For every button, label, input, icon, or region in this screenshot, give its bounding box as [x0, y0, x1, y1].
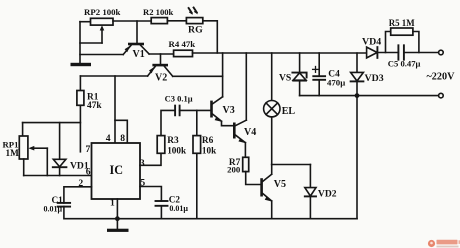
svg-text:RP2 100k: RP2 100k: [84, 7, 121, 17]
svg-text:C3 0.1μ: C3 0.1μ: [165, 94, 193, 104]
svg-text:V1: V1: [133, 49, 145, 60]
svg-text:VD2: VD2: [318, 189, 337, 200]
wire V2 emitter row to R1 column: [80, 75, 147, 77]
svg-text:0.01μ: 0.01μ: [44, 205, 63, 214]
wire main rail R4 to VD4: [193, 52, 367, 54]
svg-text:C1: C1: [52, 195, 64, 205]
wire lower terminal row: [300, 95, 439, 97]
wire C3 to V3 base: [180, 109, 211, 111]
svg-text:1: 1: [110, 198, 115, 209]
resistor R5 1M parallel: [386, 28, 419, 53]
svg-text:R4 47k: R4 47k: [169, 39, 196, 49]
label C1 0.01u: [44, 195, 64, 214]
wire pin6 row: [24, 175, 92, 177]
wire left column vertical: [79, 22, 81, 63]
wire R3 top to C3: [161, 110, 175, 135]
wire C1 bottom to rail: [64, 207, 357, 219]
svg-text:C2: C2: [169, 195, 181, 205]
wire RP1 VD1 horizontal: [23, 122, 81, 124]
terminal upper: [439, 50, 444, 55]
svg-text:C5 0.47μ: C5 0.47μ: [388, 59, 421, 69]
wire pins 4 8 drop: [115, 76, 127, 143]
wire V5 emitter to rail: [271, 201, 273, 219]
wire R7 bottom to V5 base: [246, 172, 261, 185]
wire R1 branch vertical upper: [79, 76, 81, 91]
svg-text:V4: V4: [244, 127, 256, 138]
capacitor C3 0.1u: [175, 106, 180, 116]
transistor V3: [210, 97, 222, 122]
wire V2 base: [160, 54, 162, 64]
ground bottom: [107, 219, 129, 232]
terminal lower: [439, 93, 444, 98]
node VD3 lower junction: [355, 93, 360, 98]
ground top-left: [71, 63, 92, 66]
wire EL bottom junction row: [272, 164, 311, 166]
label RP1 1M: [3, 140, 20, 159]
capacitor C2 0.01u: [156, 201, 168, 219]
zener diode VS: [292, 53, 306, 96]
svg-text:IC: IC: [110, 163, 124, 177]
label C4 470u: [327, 70, 345, 88]
wire V2 collector row to V3 collector column: [173, 75, 223, 77]
svg-text:1M: 1M: [6, 148, 20, 158]
svg-text:R2 100k: R2 100k: [143, 7, 174, 17]
capacitor C4 470u electrolytic: [313, 53, 326, 96]
wire RP1 bottom lead: [23, 159, 25, 176]
svg-text:470μ: 470μ: [327, 77, 345, 87]
wire pin2 row: [64, 187, 92, 203]
wire V4 emitter to R7: [244, 143, 246, 158]
potentiometer RP2 100k: [80, 18, 113, 43]
svg-text:V2: V2: [155, 73, 167, 84]
svg-text:3: 3: [140, 158, 145, 169]
wire R6 top: [196, 110, 198, 135]
svg-text:V5: V5: [274, 179, 286, 190]
transistor V2: [148, 64, 173, 77]
capacitor C1 0.01u: [58, 203, 70, 207]
resistor R2 100k: [151, 18, 167, 24]
capacitor C5 0.47u: [398, 45, 438, 59]
node pin1 rail junction: [115, 216, 120, 221]
wire V3 collector up to rail: [222, 53, 224, 97]
svg-text:VD3: VD3: [365, 73, 384, 84]
svg-text:VD4: VD4: [362, 36, 381, 47]
wire pin1 to ground: [116, 199, 118, 219]
label R3 100k: [167, 136, 187, 155]
diode VD4: [367, 47, 399, 58]
op-amp IC box: [92, 143, 141, 199]
label R7 200: [227, 158, 241, 174]
wire R6 bottom to rail: [196, 153, 198, 218]
lamp EL: [264, 53, 280, 165]
svg-text:6: 6: [86, 166, 91, 177]
wire V1 emitter to left column: [80, 54, 123, 56]
svg-text:EL: EL: [282, 106, 296, 117]
resistor R1 47k: [77, 91, 84, 106]
svg-text:V3: V3: [223, 105, 235, 116]
label C2 0.01u: [169, 195, 189, 214]
svg-text:0.01μ: 0.01μ: [169, 204, 188, 213]
label R6 10k: [202, 136, 217, 155]
resistor R4 47k: [174, 50, 193, 56]
svg-text:R5 1M: R5 1M: [389, 18, 416, 28]
wire R2 to RG: [167, 20, 186, 22]
wire V5 collector up: [271, 165, 273, 175]
svg-text:47k: 47k: [87, 101, 102, 111]
wire pin3 to R3: [140, 153, 161, 165]
diode VD1: [53, 123, 67, 176]
wire V1 base: [136, 21, 138, 43]
wire pin5 to C2: [140, 187, 161, 202]
svg-text:10k: 10k: [202, 145, 217, 155]
wire R1 bottom to pin7: [79, 105, 81, 152]
svg-text:200: 200: [227, 164, 241, 174]
diode VD3: [351, 53, 364, 219]
wire V3 emitter to V4 base: [222, 121, 234, 125]
resistor R6 10k: [193, 136, 201, 154]
resistor R7 200: [243, 157, 249, 171]
diode VD2: [305, 165, 316, 219]
transistor V4: [233, 120, 246, 143]
wire RG to corner down: [203, 21, 218, 53]
wire V1 collector to R4: [149, 53, 174, 55]
svg-text:RG: RG: [188, 24, 203, 35]
wire V4 collector up to rail: [245, 53, 247, 120]
wire top rail RP2 to R2: [113, 20, 151, 22]
wire RP1 top lead: [22, 123, 24, 136]
transistor V1: [123, 43, 149, 55]
svg-text:~220V: ~220V: [427, 71, 456, 82]
svg-text:VS: VS: [279, 73, 291, 84]
resistor R3 100k: [157, 136, 165, 154]
svg-text:7: 7: [86, 144, 91, 155]
svg-text:100k: 100k: [167, 145, 187, 155]
watermark logo: [428, 240, 460, 248]
potentiometer RP1 1M: [19, 136, 47, 176]
transistor V5: [260, 174, 272, 201]
label R1 47k: [87, 93, 102, 111]
wire top rail left (RP2 left lead): [80, 21, 91, 23]
photoresistor RG: [186, 8, 202, 24]
